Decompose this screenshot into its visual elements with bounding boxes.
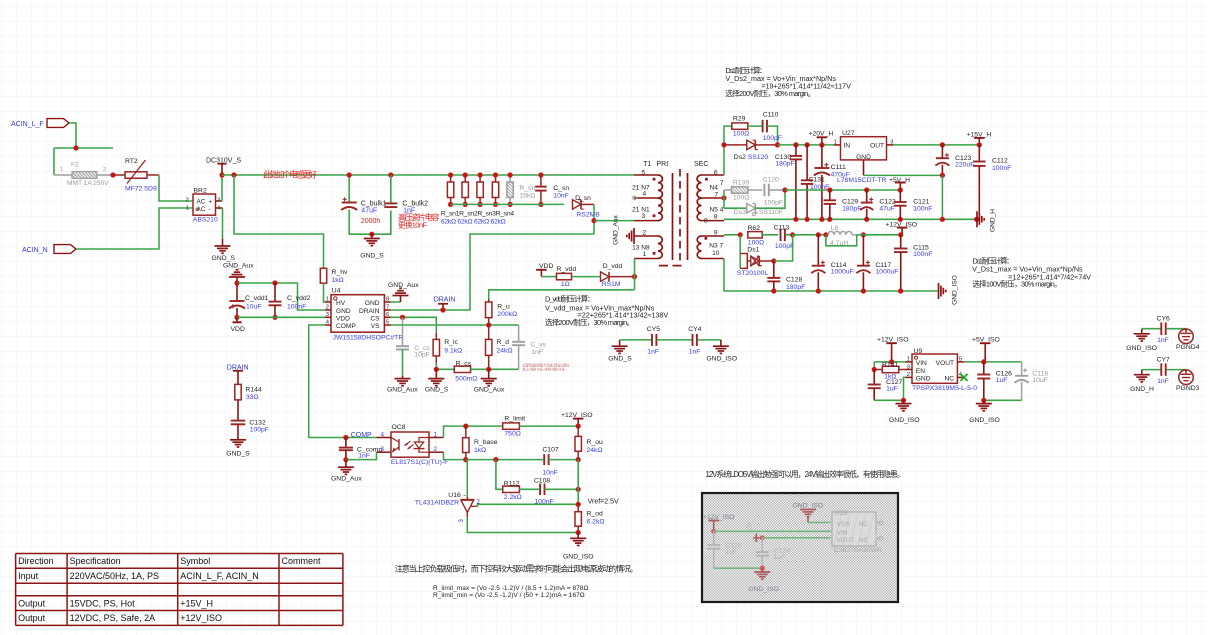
resistor R_sn2 62k [462, 175, 468, 204]
svg-text:C112: C112 [992, 158, 1008, 165]
junction Ds2 anode [721, 142, 726, 147]
capacitor C_bulk1 47uF [341, 197, 386, 225]
capacitor C128 180pF [767, 261, 805, 291]
ground GND_ISO (CY4) [706, 340, 737, 363]
svg-text:GND_ISO: GND_ISO [952, 275, 959, 305]
wire rail to R_hv [234, 175, 324, 268]
svg-text:1: 1 [326, 297, 329, 303]
optocoupler OC8 EL817 [377, 424, 449, 466]
ground GND_Aux above C_vdd [223, 263, 254, 284]
ground GND_H (rail) [977, 209, 997, 232]
svg-text:+20V_H: +20V_H [809, 130, 834, 137]
svg-text:C111: C111 [831, 164, 846, 171]
svg-text:R_d: R_d [497, 339, 510, 346]
power flag +5V_H [889, 177, 910, 190]
svg-text:U9: U9 [914, 348, 923, 355]
power flag +12V_ISO (R_limit) [561, 412, 593, 426]
svg-text:3: 3 [326, 312, 329, 318]
svg-text:GND_Aux: GND_Aux [387, 386, 418, 393]
svg-text:1nF: 1nF [531, 349, 543, 356]
svg-text:ACIN_L_F, ACIN_N: ACIN_L_F, ACIN_N [180, 571, 259, 581]
svg-text:ABS210: ABS210 [193, 217, 218, 224]
capacitor C122 47uF [860, 190, 896, 219]
junction R_sn2 [463, 172, 468, 177]
svg-text:R_lc: R_lc [444, 339, 458, 346]
junction +15V_H [977, 142, 982, 147]
earth PGND3 [1176, 370, 1200, 393]
power flag +15V_H [967, 131, 992, 145]
junction C130 top [793, 142, 798, 147]
svg-text:CS: CS [370, 315, 380, 322]
wire C127 bottom row [874, 399, 903, 401]
svg-text:Direction: Direction [18, 556, 54, 566]
wire OC8 pin1 up to R_limit row [444, 426, 503, 437]
svg-text:1: 1 [907, 357, 910, 363]
ground GND_ISO (TL431) [563, 533, 594, 561]
svg-text:ACIN_L_F: ACIN_L_F [11, 121, 44, 128]
svg-text:6: 6 [386, 312, 389, 318]
svg-text:GND_ISO: GND_ISO [563, 553, 594, 560]
ground GND_Aux (C_comp) [331, 460, 362, 483]
svg-text:T1: T1 [643, 161, 651, 168]
svg-text:1: 1 [186, 206, 189, 212]
svg-text:10: 10 [712, 250, 720, 257]
svg-text:6: 6 [714, 169, 718, 176]
junction R_base top/bottom [463, 424, 468, 429]
junction bulk gnd tap [369, 232, 374, 237]
svg-text:15kΩ: 15kΩ [519, 193, 535, 200]
junction R141/C127 [872, 367, 877, 372]
svg-text:CY4: CY4 [688, 326, 701, 333]
svg-text:220uF: 220uF [955, 162, 974, 169]
svg-text:VOUT: VOUT [936, 360, 954, 367]
svg-text:GND_Aux: GND_Aux [388, 282, 419, 289]
resistor R_sn4 62k [492, 175, 498, 204]
svg-text:L78M15CDT-TR: L78M15CDT-TR [837, 177, 887, 184]
wire U4 DRAIN to transformer [391, 234, 595, 310]
svg-text:62kΩ 62kΩ 62kΩ 62kΩ: 62kΩ 62kΩ 62kΩ 62kΩ [441, 219, 506, 226]
capacitor C_sn 10nF [535, 175, 569, 204]
capacitor C110 100pF [763, 112, 782, 145]
svg-text:GND_Aux: GND_Aux [331, 476, 362, 483]
svg-text:COMP: COMP [351, 432, 372, 439]
resistor R62 100R [748, 225, 779, 247]
wire Ds1 cathode riser to C113 [774, 235, 793, 261]
diode Ds1 ST20100L [737, 235, 774, 277]
junction C126 bottom [981, 398, 986, 403]
svg-text:Vref=2.5V: Vref=2.5V [588, 499, 619, 506]
svg-text:8: 8 [714, 214, 718, 221]
svg-text:2: 2 [103, 167, 106, 173]
resistor R_sn1 62k [447, 175, 453, 204]
junction fuse/RT2 [110, 172, 115, 177]
junction C117 top [861, 232, 866, 237]
svg-text:ST20100L: ST20100L [737, 270, 769, 277]
svg-text:L8: L8 [831, 225, 839, 232]
svg-text:C113: C113 [774, 225, 790, 232]
capacitor C_comp 1nF [339, 438, 383, 460]
svg-text:100pF: 100pF [763, 135, 782, 142]
ground GND_S (CY5) [608, 340, 632, 363]
power flag +5V_ISO [972, 337, 1000, 362]
svg-text:5: 5 [642, 169, 646, 176]
svg-text:GND_S: GND_S [226, 450, 250, 457]
svg-text:GND: GND [336, 308, 351, 315]
svg-text:RS1M: RS1M [602, 281, 621, 288]
svg-text:C_vdd2: C_vdd2 [287, 295, 311, 302]
svg-text:7: 7 [386, 305, 389, 311]
svg-text:GND: GND [856, 154, 871, 161]
wire C126/C118 bottom row [984, 399, 1022, 401]
junction C131 top [805, 142, 810, 147]
ground GND_S (bulk) [360, 234, 384, 259]
svg-text:Specification: Specification [70, 556, 121, 566]
svg-text:PGND4: PGND4 [1176, 344, 1200, 351]
svg-text:COMP: COMP [336, 323, 356, 330]
svg-text:500mΩ: 500mΩ [455, 376, 477, 383]
svg-text:100Ω: 100Ω [733, 194, 749, 201]
junctions GND_H rail [793, 217, 798, 222]
svg-text:此处加个电感更好: 此处加个电感更好 [263, 170, 318, 180]
resistor R_od 6.2k [575, 504, 604, 532]
svg-text:6.2kΩ: 6.2kΩ [587, 519, 605, 526]
labels R_sn1..4 [441, 211, 514, 226]
IC U4 JW1515BD controller [325, 288, 403, 342]
svg-text:EL817S1(C)(TU)-F: EL817S1(C)(TU)-F [391, 459, 448, 466]
svg-text:板上2脚4.5米, 线材2脚3.5米.: 板上2脚4.5米, 线材2脚3.5米. [523, 367, 566, 372]
junction C126 top [981, 359, 986, 364]
junction C_comp bottom [343, 457, 348, 462]
wire D_vdd net to R_u [489, 290, 635, 299]
svg-text:1: 1 [643, 251, 647, 258]
wire T1 pin1 down to D_vdd node [634, 259, 636, 290]
svg-text:SEC: SEC [694, 161, 708, 168]
capacitor C121 100nF [894, 190, 932, 219]
svg-text:3: 3 [642, 213, 646, 220]
net label DC310V_S [206, 157, 241, 175]
wire +20V_H row to U27 [778, 144, 835, 146]
resistor R112 2.2k [496, 460, 539, 501]
svg-text:Ds2: Ds2 [734, 154, 746, 161]
capacitor C_vs 1nF (DNP) [512, 325, 546, 369]
svg-text:Output: Output [18, 598, 46, 608]
wire U4 CS row [391, 317, 437, 332]
capacitor C126 1uF [977, 362, 1012, 400]
junction Ds1 anode tap [738, 232, 743, 237]
svg-text:NC: NC [944, 376, 954, 383]
transformer T1 secondary windings [697, 169, 724, 258]
svg-text:GND_ISO: GND_ISO [793, 502, 824, 509]
capacitor C117 1000uF [856, 235, 898, 291]
junction DC310V_S [219, 172, 224, 177]
svg-text:Ds1: Ds1 [747, 246, 759, 253]
ground GND_Aux (C_cs) [387, 376, 418, 394]
svg-text:R139: R139 [733, 180, 749, 187]
svg-text:1nF: 1nF [1157, 378, 1169, 385]
svg-text:C107: C107 [542, 447, 558, 454]
junction C_bulk1 top [347, 172, 352, 177]
junction C114 top [816, 232, 821, 237]
svg-text:VOUT: VOUT [836, 537, 854, 544]
junction R112 tap [493, 457, 498, 462]
power flag +20V_H [809, 130, 834, 145]
svg-text:9.1kΩ: 9.1kΩ [444, 347, 462, 354]
svg-text:CY7: CY7 [1157, 357, 1170, 364]
svg-text:C_sn: C_sn [553, 185, 569, 192]
svg-text:NC: NC [859, 521, 869, 528]
junction Ds2 cathode [775, 142, 780, 147]
junction R_lc bottom [434, 367, 439, 372]
wire GND_H rail [724, 218, 977, 220]
svg-text:GND_S: GND_S [608, 356, 632, 363]
svg-text:R_base: R_base [474, 439, 498, 446]
svg-text:R_ou: R_ou [587, 439, 603, 446]
junction C115 top [898, 232, 903, 237]
svg-text:Ds3: Ds3 [734, 209, 746, 216]
svg-text:R112: R112 [504, 481, 520, 488]
capacitor C107 10nF [542, 447, 578, 477]
svg-text:180pF: 180pF [786, 284, 805, 291]
junction +12V_ISO / R_ou [576, 424, 581, 429]
net label DRAIN (U4) [434, 297, 456, 313]
hatched box: disabled LDO circuit [702, 493, 898, 602]
wire U27 GND down [863, 160, 865, 176]
wire T1 pin6 riser [724, 126, 732, 175]
svg-text:TL431AIDBZR: TL431AIDBZR [415, 500, 459, 507]
svg-text:C110: C110 [763, 112, 779, 119]
ground GND_H (CY7) [1130, 370, 1154, 393]
svg-text:GND: GND [916, 376, 931, 383]
annotation Ds2 voltage calc [725, 65, 851, 98]
svg-text:VDD: VDD [231, 326, 245, 333]
junction Ds3/R139 [782, 187, 787, 192]
wire RT2 to BR2 pin2 [159, 175, 193, 201]
junction C123 bottom [940, 173, 945, 178]
wire VIN row [874, 361, 905, 363]
note: R_limit formulas [433, 585, 588, 599]
svg-text:3: 3 [907, 364, 910, 370]
svg-text:3: 3 [890, 139, 893, 145]
svg-text:C9: C9 [748, 523, 754, 530]
svg-text:220VAC/50Hz, 1A, PS: 220VAC/50Hz, 1A, PS [70, 571, 159, 581]
svg-text:100nF: 100nF [913, 251, 932, 258]
wire VDD row to U4 [237, 316, 325, 318]
resistor R_cs 500m [436, 361, 518, 383]
svg-text:-: - [209, 206, 211, 213]
svg-text:GND: GND [365, 300, 380, 307]
svg-text:R_u: R_u [497, 303, 510, 310]
junction R_d top [486, 322, 491, 327]
junction R_sn [508, 172, 513, 177]
svg-text:NC: NC [859, 537, 869, 544]
wire vdd top row [237, 283, 325, 310]
resistor R_base 1k [463, 426, 498, 460]
wire T1 pin9 row [724, 234, 740, 236]
svg-text:N5: N5 [710, 206, 719, 213]
wire +5V_H row [785, 189, 900, 191]
wire post-L row [857, 234, 901, 236]
capacitor CY6 1nF [1142, 316, 1186, 344]
svg-text:SS120: SS120 [748, 154, 769, 161]
svg-text:R_cs: R_cs [456, 361, 472, 368]
svg-text:R144: R144 [245, 386, 261, 393]
svg-text:750Ω: 750Ω [504, 430, 520, 437]
resistor R_sn3 62k [477, 175, 483, 204]
wire pin7 risers [723, 190, 725, 208]
svg-text:GND_Aux: GND_Aux [474, 386, 505, 393]
svg-text:R_limit_max = (Vo -2.5 -1.2)V: R_limit_max = (Vo -2.5 -1.2)V / (8.5 + 1… [433, 585, 588, 592]
svg-text:1nF: 1nF [1157, 337, 1169, 344]
capacitor C_vdd2 100nF [269, 283, 311, 317]
capacitor C129 180pF [824, 190, 862, 219]
svg-text:IN: IN [844, 143, 851, 150]
svg-text:VS: VS [371, 323, 380, 330]
svg-text:1nF: 1nF [358, 453, 370, 460]
svg-text:24kΩ: 24kΩ [587, 447, 603, 454]
svg-text:8: 8 [704, 217, 708, 224]
svg-text:+15V_H: +15V_H [180, 598, 213, 608]
svg-text:12VDC, PS, Safe, 2A: 12VDC, PS, Safe, 2A [70, 613, 156, 623]
svg-text:13 N8: 13 N8 [632, 245, 650, 252]
svg-text:10uF: 10uF [246, 303, 262, 310]
junction R_d bottom [486, 367, 491, 372]
transformer T1 labels [643, 161, 708, 168]
diode Ds3 SS110F (DNP) [724, 190, 785, 216]
resistor R_lc 9.1k [433, 332, 462, 369]
ground GND_ISO (U9) [889, 400, 920, 424]
svg-text:DRAIN: DRAIN [434, 297, 456, 304]
wire C123 bottom to GND_H rail [941, 175, 943, 219]
svg-text:2.2kΩ: 2.2kΩ [504, 494, 522, 501]
junction R_od bottom [576, 530, 581, 535]
junction C_comp [343, 435, 348, 440]
svg-text:GND_ISO: GND_ISO [1126, 345, 1157, 352]
svg-text:R_limit_min = (Vo -2.5 -1.2)V: R_limit_min = (Vo -2.5 -1.2)V / (50 + 1.… [433, 592, 585, 599]
svg-text:5: 5 [386, 320, 389, 326]
junction VIN [889, 359, 894, 364]
svg-text:选择200V耐压，30% margin。: 选择200V耐压，30% margin。 [545, 318, 634, 327]
capacitor C130 180pF [775, 145, 802, 219]
diode Ds2 SS120 [724, 140, 778, 161]
junction VDD row [234, 315, 239, 320]
svg-text:ACIN_N: ACIN_N [22, 247, 48, 254]
wire U4 COMP to OC8 [309, 325, 377, 438]
svg-text:C_vs: C_vs [530, 342, 546, 349]
junction C108 right [576, 487, 581, 492]
capacitor C112 100nF [973, 145, 1011, 219]
ground GND_Aux (R_d) [474, 369, 505, 393]
svg-text:AC: AC [197, 199, 206, 206]
capacitor C_cs 10pF (DNP) [396, 317, 430, 375]
svg-text:C3837BA30WR: C3837BA30WR [834, 547, 882, 554]
resistor R_vdd 1R [541, 266, 600, 288]
wire BR2 pin4 to GND_S [222, 208, 224, 239]
junction rail to R_hv branch [231, 172, 236, 177]
svg-text:C108: C108 [534, 477, 550, 484]
capacitor C131 100nF [801, 145, 829, 219]
svg-text:GND_S: GND_S [360, 253, 384, 260]
ground GND_S (bridge) [212, 246, 236, 262]
svg-text:CY5: CY5 [647, 326, 660, 333]
capacitor C113 100pF [774, 225, 795, 250]
svg-text:RT2: RT2 [125, 158, 138, 165]
resistor R_ou 24k [575, 426, 603, 460]
svg-text:N4: N4 [710, 184, 719, 191]
svg-text:C128: C128 [786, 277, 802, 284]
junction C123 top [940, 142, 945, 147]
svg-text:+12V_ISO: +12V_ISO [180, 613, 222, 623]
wire U4 VS row [391, 324, 519, 326]
resistor R_hv 1k [320, 268, 348, 284]
svg-text:7: 7 [714, 192, 718, 199]
svg-text:D_sn: D_sn [575, 195, 591, 202]
svg-text:GND_S: GND_S [425, 386, 449, 393]
varistor RT2 MF72 5D9 [113, 158, 159, 193]
svg-text:R_sn: R_sn [519, 185, 535, 192]
wire VOUT row [964, 361, 1022, 363]
capacitor C127 1uF [868, 370, 903, 401]
svg-text:8: 8 [386, 297, 389, 303]
svg-text:1uF: 1uF [726, 549, 738, 556]
svg-text:12V系统LDO5V输出勉强可以用，24V输出效率很低，有使: 12V系统LDO5V输出勉强可以用，24V输出效率很低，有使用隐患。 [706, 469, 905, 479]
svg-text:1nF: 1nF [647, 349, 659, 356]
svg-text:C120: C120 [763, 176, 779, 183]
capacitor C114 1000uF [811, 235, 853, 291]
junction C_bulk2 top [388, 172, 393, 177]
net label DRAIN (R144) [227, 364, 249, 384]
svg-text:TPSPX3819M5-L-5-0: TPSPX3819M5-L-5-0 [912, 385, 977, 392]
svg-text:10pF: 10pF [414, 351, 430, 358]
wire OC8 pin2 down to R_base row [444, 452, 544, 459]
wire to T1 pin3 [594, 220, 634, 222]
svg-text:C_bulk2: C_bulk2 [402, 201, 428, 208]
junction +5V_H caps [827, 187, 832, 192]
junction R_sn4 [493, 172, 498, 177]
svg-text:1kΩ: 1kΩ [332, 277, 344, 284]
svg-text:EN: EN [916, 368, 925, 375]
fuse F2 MMT 1A 250V [54, 162, 113, 188]
svg-text:R_limit: R_limit [504, 416, 525, 423]
svg-text:2000h: 2000h [361, 218, 381, 225]
port ACIN_N [22, 245, 76, 254]
svg-text:VIN: VIN [837, 530, 848, 537]
resistor R141 1k [874, 362, 905, 381]
svg-text:2: 2 [326, 305, 329, 311]
svg-text:R62: R62 [748, 225, 761, 232]
svg-text:1uF: 1uF [774, 554, 786, 561]
ground GND_ISO (rail) [939, 275, 959, 305]
svg-text:21 N7: 21 N7 [632, 184, 650, 191]
svg-text:U27: U27 [842, 130, 855, 137]
svg-text:N3 7: N3 7 [709, 243, 723, 250]
svg-text:GND_ISO: GND_ISO [889, 417, 920, 424]
svg-text:1000uF: 1000uF [875, 268, 898, 275]
svg-text:3: 3 [217, 198, 220, 204]
wire R_hv to U4 HV [324, 283, 326, 302]
svg-text:100pF: 100pF [764, 200, 783, 207]
svg-text:VDD: VDD [336, 315, 350, 322]
power flag VDD [231, 317, 245, 333]
svg-text:9: 9 [714, 229, 718, 236]
svg-text:GND_ISO: GND_ISO [748, 586, 779, 593]
svg-text:GND_H: GND_H [990, 209, 997, 232]
IC U9 TPS LDO [906, 348, 978, 392]
junction C113 right [790, 232, 795, 237]
svg-text:OC8: OC8 [392, 424, 406, 431]
resistor R_u 200k [486, 299, 518, 325]
svg-text:1kΩ: 1kΩ [474, 447, 486, 454]
svg-text:R_sn1R_sn2R_sn3R_sn4: R_sn1R_sn2R_sn3R_sn4 [441, 211, 514, 218]
